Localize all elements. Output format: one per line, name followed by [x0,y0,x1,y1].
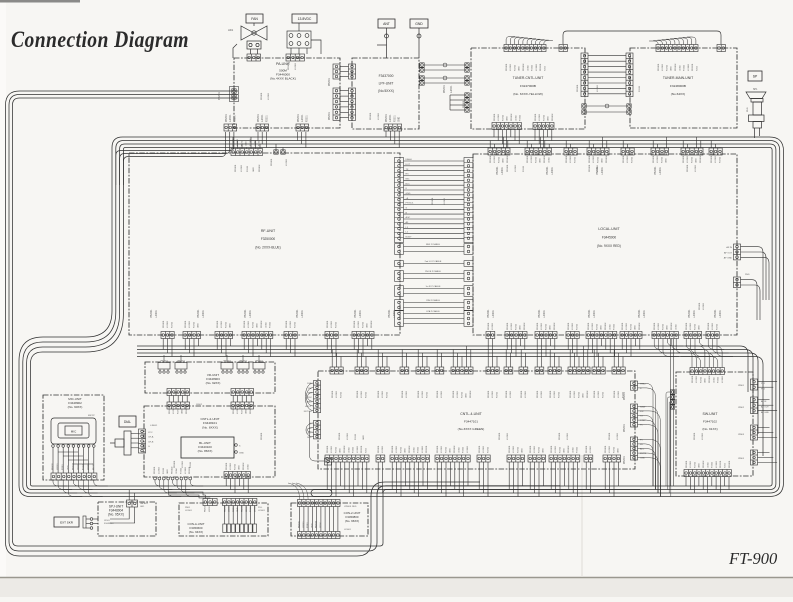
svg-text:P2201: P2201 [340,391,342,398]
svg-text:P3102: P3102 [520,114,522,121]
svg-text:LJ2001: LJ2001 [593,309,596,318]
svg-text:P2201: P2201 [225,321,227,328]
svg-text:PB2001: PB2001 [402,390,404,398]
svg-text:(No. 94XX): (No. 94XX) [189,530,203,534]
svg-text:LJ2001: LJ2001 [221,320,223,328]
svg-text:PB2001: PB2001 [577,84,579,92]
svg-text:LJ2001: LJ2001 [719,309,722,318]
svg-text:AF IN: AF IN [726,246,732,249]
svg-text:LJ2001: LJ2001 [182,460,184,468]
svg-text:LJ2001: LJ2001 [382,445,384,453]
svg-text:PB2001: PB2001 [432,197,434,205]
svg-text:LJ3001: LJ3001 [722,375,724,383]
svg-text:LOCAL-UNIT: LOCAL-UNIT [598,227,620,231]
svg-text:LJ2001: LJ2001 [703,302,705,310]
svg-text:PB2001: PB2001 [568,322,570,330]
svg-text:LJ2001: LJ2001 [541,390,543,398]
svg-text:PB2002: PB2002 [587,390,589,398]
svg-text:LJ2001: LJ2001 [268,92,270,100]
svg-text:PB2002: PB2002 [344,445,346,453]
svg-text:GND: GND [415,22,423,26]
svg-text:PB2001: PB2001 [570,390,572,398]
svg-text:F3448904: F3448904 [104,523,114,525]
svg-text:PB2002: PB2002 [409,445,411,453]
svg-text:PB2001: PB2001 [487,309,490,318]
svg-text:LJ2001: LJ2001 [492,322,494,330]
svg-text:SP1: SP1 [753,89,758,91]
svg-text:CNTL-4-UNIT: CNTL-4-UNIT [460,412,482,416]
svg-text:LJ2001: LJ2001 [597,84,599,92]
svg-text:PB2002: PB2002 [639,322,641,330]
svg-text:GND: GND [705,378,707,383]
svg-text:G: G [406,208,408,210]
svg-text:P3102: P3102 [577,446,579,453]
svg-text:PB2002: PB2002 [243,462,245,470]
svg-text:LJ3001: LJ3001 [185,466,187,474]
svg-text:LJ2001: LJ2001 [531,155,533,163]
svg-text:LJ2001: LJ2001 [541,322,543,330]
svg-text:P3102: P3102 [83,463,85,470]
svg-text:J2004: J2004 [548,156,550,163]
svg-text:PB2001: PB2001 [588,309,591,318]
svg-text:GND: GND [246,409,248,414]
svg-text:LJ2001: LJ2001 [230,114,232,122]
svg-text:GND: GND [583,393,585,398]
svg-text:FM: FM [308,397,311,399]
svg-text:BLC: BLC [406,183,411,185]
svg-text:LJ2001: LJ2001 [57,463,59,470]
svg-text:PB2001: PB2001 [509,445,511,453]
svg-text:LJ3001: LJ3001 [688,63,690,71]
svg-text:PB2001: PB2001 [298,113,300,122]
svg-text:LJ9001: LJ9001 [258,510,266,512]
svg-text:PB2002: PB2002 [511,113,513,121]
svg-text:(No. 2XXX-BLUE): (No. 2XXX-BLUE) [255,246,281,250]
svg-text:PB2001: PB2001 [388,309,391,318]
svg-text:P2201: P2201 [177,407,179,414]
svg-text:P3102: P3102 [712,461,714,468]
svg-text:PB2001: PB2001 [386,113,388,122]
svg-text:PB2001: PB2001 [205,504,207,512]
svg-text:P2201: P2201 [386,391,388,398]
svg-text:P2201: P2201 [666,64,668,71]
svg-text:VR2001: VR2001 [223,361,232,363]
svg-text:LJ2001: LJ2001 [451,85,453,93]
svg-text:P3102: P3102 [270,321,272,328]
svg-text:(No. 86XX): (No. 86XX) [198,449,213,453]
svg-text:P2201: P2201 [517,446,519,453]
svg-text:P2201: P2201 [461,391,463,398]
svg-text:P2201: P2201 [496,391,498,398]
svg-text:PRE2: PRE2 [640,383,646,385]
svg-text:PB1201: PB1201 [720,460,722,468]
svg-text:LJ2001: LJ2001 [237,406,239,414]
svg-text:LJ2001: LJ2001 [393,309,396,318]
svg-text:P2201: P2201 [171,321,173,328]
svg-text:PB2001: PB2001 [378,445,380,453]
svg-text:PB2002: PB2002 [261,320,263,328]
svg-text:PB2001: PB2001 [594,390,596,398]
svg-text:AF IN: AF IN [761,400,767,403]
svg-text:PB1201: PB1201 [361,445,363,453]
svg-text:LJ2001: LJ2001 [590,445,592,453]
svg-text:J2004: J2004 [176,467,178,474]
svg-text:LJ2001: LJ2001 [396,445,398,453]
svg-text:PB1201: PB1201 [692,63,694,71]
svg-text:GND: GND [540,158,542,163]
svg-text:P3102: P3102 [718,376,720,383]
svg-text:GND: GND [340,448,342,453]
svg-text:PB2001: PB2001 [507,164,509,172]
svg-text:GND: GND [507,116,509,121]
svg-text:LJ2001: LJ2001 [592,322,594,330]
svg-text:P2201: P2201 [578,391,580,398]
svg-text:1st IF P.CABLE: 1st IF P.CABLE [425,285,441,288]
svg-text:PB2001: PB2001 [527,155,529,163]
svg-text:LJ2001: LJ2001 [336,390,338,398]
svg-text:LJ3001: LJ3001 [536,63,538,71]
svg-text:PB2001: PB2001 [154,466,156,474]
svg-text:DASH: DASH [406,158,412,161]
svg-text:PB2001: PB2001 [233,406,235,414]
svg-text:GND: GND [239,465,241,470]
svg-text:(No. 95XX): (No. 95XX) [108,513,124,517]
svg-text:LJ2001: LJ2001 [543,309,546,318]
svg-text:LJ2001: LJ2001 [627,155,629,163]
svg-text:LJ2001: LJ2001 [693,309,696,318]
svg-text:23M P.CABLE: 23M P.CABLE [426,299,440,302]
svg-text:VR2001: VR2001 [255,361,264,363]
svg-text:P3102: P3102 [418,446,420,453]
svg-text:GND: GND [406,193,411,195]
svg-text:TUNER-MAIN-UNIT: TUNER-MAIN-UNIT [663,76,693,80]
svg-text:PB2001: PB2001 [653,155,655,163]
svg-text:P2201: P2201 [694,461,696,468]
svg-text:GND: GND [543,448,545,453]
svg-text:PB2001: PB2001 [638,309,641,318]
svg-text:G: G [148,446,150,448]
svg-text:P2201: P2201 [574,156,576,163]
svg-text:GND: GND [666,158,668,163]
svg-text:(No. 9XXX RED): (No. 9XXX RED) [597,244,621,248]
svg-text:T201: T201 [366,447,368,453]
svg-text:PB2001: PB2001 [453,390,455,398]
svg-text:AF OUT: AF OUT [761,405,769,408]
svg-text:P2201: P2201 [700,376,702,383]
svg-text:P3102: P3102 [463,446,465,453]
svg-text:PB2001: PB2001 [244,309,247,318]
svg-text:LJ2001: LJ2001 [501,166,504,175]
svg-text:GND: GND [519,66,521,71]
svg-text:P2201: P2201 [426,391,428,398]
svg-text:LJ2001: LJ2001 [155,309,158,318]
svg-text:PB2001: PB2001 [654,166,657,175]
svg-text:J8002: J8002 [196,404,203,406]
svg-text:LJ2001: LJ2001 [189,320,191,328]
svg-text:GND: GND [311,523,313,528]
svg-text:AF OUT: AF OUT [724,251,733,254]
svg-text:PB2001: PB2001 [588,322,590,330]
svg-text:PB1201: PB1201 [540,63,542,71]
svg-text:F3250000: F3250000 [261,237,276,241]
svg-text:LJ2001: LJ2001 [513,445,515,453]
svg-text:PB2001: PB2001 [546,166,549,175]
svg-text:LJ2001: LJ2001 [570,155,572,163]
svg-text:LJ3001: LJ3001 [467,445,469,453]
svg-text:P3102: P3102 [532,64,534,71]
svg-text:PB2002: PB2002 [671,322,673,330]
svg-text:PB2001: PB2001 [329,111,331,120]
svg-text:PB2001: PB2001 [226,462,228,470]
svg-text:PB2001: PB2001 [686,460,688,468]
svg-text:(No.64XX): (No.64XX) [671,92,685,96]
svg-text:PB2001: PB2001 [150,309,153,318]
svg-text:PB2001: PB2001 [499,432,501,440]
svg-text:LJ2001: LJ2001 [511,322,513,330]
svg-text:GND: GND [640,458,645,460]
svg-text:P2201: P2201 [631,156,633,163]
svg-text:P2201: P2201 [514,64,516,71]
svg-text:GND: GND [239,453,244,455]
svg-text:PB2001: PB2001 [623,155,625,163]
svg-text:LAPBE1: LAPBE1 [140,502,149,505]
svg-text:PB2001: PB2001 [507,322,509,330]
svg-text:GND: GND [550,325,552,330]
svg-text:J2004: J2004 [515,114,517,121]
svg-text:LJ2001: LJ2001 [643,309,646,318]
svg-text:GND: GND [246,141,248,146]
svg-text:P2201: P2201 [394,115,396,122]
svg-text:ANT: ANT [383,22,390,26]
svg-text:(No. 91XX): (No. 91XX) [702,427,717,431]
svg-text:GND: GND [230,323,232,328]
svg-text:LJ2001: LJ2001 [712,322,714,330]
svg-text:P2201: P2201 [661,156,663,163]
svg-text:J2004: J2004 [679,64,681,71]
svg-text:13.8VDC: 13.8VDC [298,17,312,21]
svg-text:PB2001: PB2001 [654,322,656,330]
svg-text:LJ2001: LJ2001 [687,155,689,163]
svg-text:PB2001: PB2001 [537,390,539,398]
svg-text:LJ2001: LJ2001 [286,158,288,166]
svg-text:GND: GND [450,448,452,453]
svg-text:LJ2001: LJ2001 [507,432,509,440]
svg-text:LJ3001: LJ3001 [716,460,718,468]
svg-text:JPB01: JPB01 [738,385,745,387]
svg-text:GND: GND [182,409,184,414]
svg-text:LJ2001: LJ2001 [390,114,392,122]
svg-text:PB1201: PB1201 [426,445,428,453]
svg-text:LJ2001: LJ2001 [382,390,384,398]
svg-text:P3102: P3102 [259,139,261,146]
svg-text:GND: GND [466,393,468,398]
svg-text:PB2001: PB2001 [219,91,221,100]
svg-text:ALC: ALC [640,448,645,451]
svg-text:GND: GND [253,167,255,172]
svg-text:Connection Diagram: Connection Diagram [11,26,189,52]
svg-text:P2201: P2201 [639,85,641,92]
svg-text:P2201: P2201 [163,467,165,474]
svg-text:LJ2001: LJ2001 [539,113,541,121]
svg-text:NOTCH: NOTCH [304,411,312,413]
svg-text:PB2002: PB2002 [700,155,702,163]
svg-text:PB2001: PB2001 [694,432,696,440]
svg-text:PB2002: PB2002 [316,520,318,528]
svg-text:PB2001: PB2001 [271,158,273,166]
svg-text:P2201: P2201 [538,446,540,453]
svg-text:P2201: P2201 [630,323,632,330]
svg-text:LJ2001: LJ2001 [572,322,574,330]
svg-text:PB2001: PB2001 [261,432,263,440]
svg-text:LJ2001: LJ2001 [359,309,362,318]
svg-text:P2201: P2201 [193,321,195,328]
svg-text:PB2001: PB2001 [687,164,689,172]
svg-text:PB2001: PB2001 [624,391,626,400]
svg-text:PB2001: PB2001 [550,390,552,398]
svg-text:EXT SKR: EXT SKR [60,520,74,524]
svg-text:P2201: P2201 [234,115,236,122]
svg-text:PB2002: PB2002 [605,322,607,330]
svg-text:VR2001: VR2001 [239,361,248,363]
svg-text:PB2001: PB2001 [622,322,624,330]
svg-text:PB2001: PB2001 [327,320,329,328]
svg-text:PB2001: PB2001 [530,445,532,453]
svg-text:MIC2P: MIC2P [88,415,95,417]
svg-text:PB2001: PB2001 [551,445,553,453]
svg-text:PB2002: PB2002 [250,406,252,414]
svg-text:PB2001: PB2001 [354,320,356,328]
svg-text:J2004: J2004 [527,64,529,71]
svg-text:J2004: J2004 [572,446,574,453]
svg-text:PB2001: PB2001 [437,445,439,453]
svg-text:PB2001: PB2001 [686,322,688,330]
svg-text:PB2001: PB2001 [299,520,301,528]
svg-text:T201: T201 [697,65,699,71]
svg-text:LJ2001: LJ2001 [441,390,443,398]
svg-text:PB2001: PB2001 [174,460,176,468]
svg-text:JPB05: JPB05 [738,458,745,460]
svg-text:P2201: P2201 [597,156,599,163]
svg-text:J2004: J2004 [348,446,350,453]
svg-text:MUTE: MUTE [640,453,647,455]
svg-text:LJ2001: LJ2001 [230,462,232,470]
svg-text:PB2002: PB2002 [454,445,456,453]
svg-text:AF GND: AF GND [761,411,769,414]
svg-text:CH-B: CH-B [148,441,154,443]
svg-text:LJ2001: LJ2001 [249,309,252,318]
svg-text:PB2001: PB2001 [185,320,187,328]
svg-text:LJ8001: LJ8001 [150,425,158,427]
svg-text:PHD: PHD [745,274,750,276]
svg-text:PB2001: PB2001 [708,322,710,330]
svg-text:PB2001: PB2001 [288,62,290,70]
svg-text:TUNER-CNTL-UNIT: TUNER-CNTL-UNIT [513,76,544,80]
svg-text:PB2002: PB2002 [554,322,556,330]
svg-text:LJ2001: LJ2001 [492,390,494,398]
svg-text:LJ2001: LJ2001 [702,432,704,440]
svg-text:PB2001: PB2001 [692,375,694,383]
svg-text:P2201: P2201 [335,321,337,328]
svg-text:LJ2001: LJ2001 [492,309,495,318]
svg-text:PB2002: PB2002 [523,63,525,71]
svg-text:LJ2001: LJ2001 [378,112,380,120]
svg-text:DIAL: DIAL [124,420,131,424]
svg-text:P2201: P2201 [266,115,268,122]
svg-text:PB2001: PB2001 [286,320,288,328]
svg-text:PB2001: PB2001 [354,309,357,318]
svg-text:P2201: P2201 [596,323,598,330]
svg-text:LJ3001: LJ3001 [357,445,359,453]
svg-text:PB2002: PB2002 [470,390,472,398]
svg-text:LPF-UNIT: LPF-UNIT [379,82,394,86]
svg-text:P2201: P2201 [234,463,236,470]
svg-text:PB2001: PB2001 [624,423,626,432]
svg-text:(No.5XXX): (No.5XXX) [378,89,394,93]
svg-text:LJ2001: LJ2001 [551,166,554,175]
svg-text:LJ2001: LJ2001 [248,320,250,328]
svg-text:PB01: PB01 [185,507,191,509]
svg-text:PB2001: PB2001 [589,155,591,163]
svg-text:LJ2001: LJ2001 [202,309,205,318]
svg-text:PB2001: PB2001 [479,445,481,453]
svg-text:HD1: HD1 [228,28,234,32]
svg-text:P3102: P3102 [353,446,355,453]
svg-text:JPB03: JPB03 [738,434,745,436]
svg-text:PB2001: PB2001 [658,63,660,71]
svg-text:LJ2001: LJ2001 [567,432,569,440]
svg-text:P2201: P2201 [576,323,578,330]
svg-text:AGC: AGC [406,216,411,219]
svg-text:LJ2001: LJ2001 [158,466,160,474]
svg-text:GND: GND [167,469,169,474]
svg-text:J9501: J9501 [104,520,111,522]
svg-text:PB2002: PB2002 [524,322,526,330]
svg-text:LJ2001: LJ2001 [441,445,443,453]
svg-text:LJ2001: LJ2001 [574,390,576,398]
svg-text:F3248000B: F3248000B [670,84,686,88]
svg-text:P2201: P2201 [247,165,249,172]
svg-text:GND: GND [67,465,69,470]
svg-text:LJ2001: LJ2001 [209,505,211,512]
svg-text:LJ2001: LJ2001 [715,155,717,163]
svg-text:PB2001: PB2001 [378,390,380,398]
svg-text:PB2001: PB2001 [52,462,54,470]
svg-text:LJ2001: LJ2001 [498,113,500,121]
svg-text:GND: GND [198,323,200,328]
svg-text:SW-UNIT: SW-UNIT [703,412,719,416]
svg-text:LJ2001: LJ2001 [262,114,264,122]
svg-text:P2201: P2201 [602,391,604,398]
svg-text:VR2001: VR2001 [177,361,186,363]
svg-text:P2201: P2201 [558,391,560,398]
svg-text:P2201: P2201 [498,156,500,163]
svg-text:LPA P.CABLE: LPA P.CABLE [426,310,440,313]
svg-text:PB2002: PB2002 [507,155,509,163]
svg-text:(No. 92XX): (No. 92XX) [206,381,221,385]
svg-text:PB2002: PB2002 [552,113,554,121]
svg-text:LPB001 RED: LPB001 RED [344,506,357,508]
svg-text:LJ2001: LJ2001 [173,406,175,414]
svg-text:PB2002: PB2002 [709,375,711,383]
svg-text:P2201: P2201 [362,321,364,328]
svg-text:(No. 96XX): (No. 96XX) [345,519,359,523]
svg-text:F3247000B: F3247000B [520,84,536,88]
svg-text:LJ2001: LJ2001 [626,322,628,330]
svg-text:PB2001: PB2001 [258,113,260,122]
svg-text:STEP: STEP [640,420,646,422]
svg-text:P2201: P2201 [365,391,367,398]
svg-text:P2201: P2201 [307,521,309,528]
